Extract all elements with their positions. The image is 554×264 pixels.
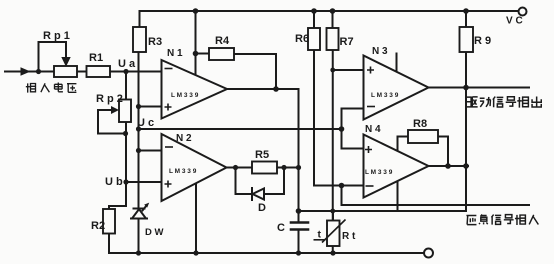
svg-text:D W: D W bbox=[145, 227, 164, 238]
svg-text:L M 3 3 9: L M 3 3 9 bbox=[169, 168, 197, 175]
svg-text:V C: V C bbox=[506, 16, 523, 27]
svg-text:R3: R3 bbox=[148, 36, 162, 48]
svg-text:R6: R6 bbox=[295, 33, 309, 45]
svg-text:N 3: N 3 bbox=[372, 46, 388, 57]
svg-text:L M 3 3 9: L M 3 3 9 bbox=[171, 92, 199, 99]
svg-text:R7: R7 bbox=[340, 36, 354, 48]
svg-text:C: C bbox=[277, 222, 285, 234]
svg-text:U b: U b bbox=[105, 176, 123, 188]
svg-text:R1: R1 bbox=[89, 52, 103, 64]
svg-text:N 1: N 1 bbox=[167, 48, 183, 59]
svg-text:R p 1: R p 1 bbox=[43, 30, 70, 42]
svg-text:L M 3 3 9: L M 3 3 9 bbox=[365, 169, 393, 176]
svg-text:R 9: R 9 bbox=[474, 35, 491, 47]
svg-text:L M 3 3 9: L M 3 3 9 bbox=[371, 92, 399, 99]
svg-text:R5: R5 bbox=[255, 149, 269, 161]
svg-text:R t: R t bbox=[342, 231, 356, 242]
svg-text:D: D bbox=[258, 202, 266, 214]
svg-text:U a: U a bbox=[118, 58, 136, 70]
svg-text:N 4: N 4 bbox=[365, 124, 381, 135]
svg-text:R4: R4 bbox=[215, 35, 230, 47]
svg-text:t: t bbox=[318, 229, 322, 241]
svg-text:U c: U c bbox=[137, 117, 154, 129]
svg-text:R8: R8 bbox=[413, 118, 427, 130]
svg-text:R2: R2 bbox=[91, 220, 105, 232]
svg-text:R p 2: R p 2 bbox=[96, 93, 123, 105]
svg-text:N 2: N 2 bbox=[176, 133, 192, 144]
